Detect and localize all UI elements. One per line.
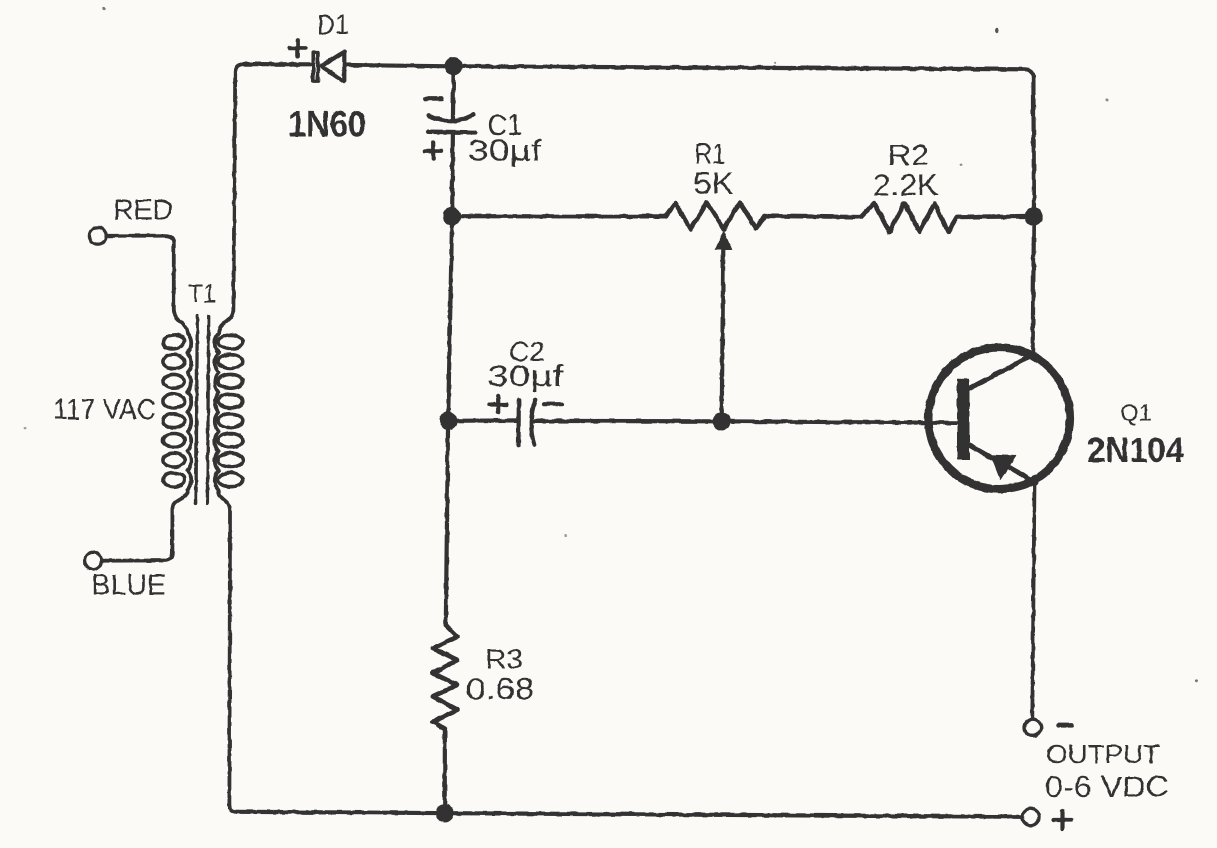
- R1 wiper arrow head: [716, 232, 732, 250]
- plus sign of C1: [425, 143, 442, 160]
- wire R3 bottom lead to bottom rail: [443, 729, 447, 814]
- diode D1 triangle: [321, 52, 344, 82]
- capacitor C2 straight positive plate: [516, 400, 520, 445]
- wire R1 wiper stem down to C2 wire: [722, 247, 724, 421]
- wire C2 left lead from node: [448, 418, 518, 423]
- svg-text:OUTPUT: OUTPUT: [1046, 739, 1160, 769]
- transistor Q1 emitter diagonal lead: [969, 445, 1037, 483]
- RED terminal circle: [89, 227, 106, 244]
- wire C1 top lead: [451, 66, 456, 121]
- svg-text:30µf: 30µf: [487, 360, 565, 393]
- wire top rail left segment from transformer corner to diode D1 anode bar: [244, 62, 313, 66]
- capacitor C2 curved negative plate: [531, 400, 535, 445]
- minus sign at output: [1059, 723, 1073, 728]
- output minus terminal circle: [1025, 719, 1042, 736]
- svg-text:Q1: Q1: [1120, 400, 1152, 427]
- node junction dot R2 right / collector rail: [1025, 207, 1043, 225]
- wire right rail from top corner down to transistor collector: [1033, 78, 1034, 355]
- transistor Q1 base bar: [957, 379, 970, 460]
- node junction dot at top of C1: [444, 57, 462, 75]
- potentiometer R1 zigzag body: [666, 203, 765, 230]
- svg-text:0-6 VDC: 0-6 VDC: [1045, 771, 1169, 803]
- capacitor C1 straight positive plate: [428, 130, 475, 135]
- plus sign at output: [1054, 811, 1072, 829]
- wire bottom rail: [237, 812, 1022, 817]
- minus sign of C1: [425, 97, 442, 101]
- capacitor C1 curved negative plate: [429, 114, 474, 121]
- node junction dot C1 bottom / R1 wire: [443, 207, 461, 225]
- svg-text:R1: R1: [695, 138, 726, 170]
- svg-text:30µf: 30µf: [468, 135, 543, 168]
- svg-text:1N60: 1N60: [288, 104, 366, 145]
- plus sign of C2: [489, 396, 507, 413]
- node junction dot wiper stem / base wire: [713, 412, 731, 430]
- transformer T1 core line right: [207, 316, 208, 504]
- minus sign of C2: [544, 402, 562, 406]
- output plus terminal circle: [1022, 809, 1039, 826]
- svg-text:5K: 5K: [693, 167, 734, 201]
- resistor R3 zigzag body: [433, 625, 458, 729]
- svg-text:2N104: 2N104: [1087, 431, 1184, 470]
- svg-text:RED: RED: [113, 195, 173, 227]
- transformer T1 core line left: [196, 316, 197, 504]
- transistor Q1 emitter arrow head: [991, 455, 1016, 479]
- wire from C1 node to R1 left end: [452, 214, 666, 218]
- wire top rail from diode to top-right corner: [344, 65, 1033, 78]
- svg-text:BLUE: BLUE: [92, 569, 167, 601]
- transformer T1 secondary loop turns: [218, 335, 243, 487]
- svg-text:2.2K: 2.2K: [873, 168, 939, 202]
- wire left middle rail from C1 node down through C2 node to R3: [446, 216, 452, 625]
- svg-text:T1: T1: [188, 281, 216, 309]
- wire from R2 to collector rail: [957, 214, 1034, 219]
- svg-text:D1: D1: [317, 9, 349, 40]
- wire C1 bottom lead down to R1 node: [450, 132, 455, 216]
- BLUE terminal circle: [85, 552, 102, 569]
- wire emitter down to output minus terminal: [1032, 481, 1034, 720]
- transformer T1 secondary winding lead and scallop spine (right): [215, 64, 244, 812]
- wire C2 right lead to transistor base: [531, 421, 957, 423]
- resistor R2 zigzag body: [861, 203, 957, 232]
- node junction dot at C2 left / R3 top: [439, 412, 457, 430]
- transistor Q1 collector diagonal lead: [969, 355, 1033, 389]
- svg-text:117 VAC: 117 VAC: [53, 394, 156, 426]
- diode D1 cathode bar: [313, 52, 318, 81]
- svg-text:R3: R3: [485, 644, 523, 675]
- svg-text:0.68: 0.68: [466, 673, 535, 706]
- scan speckle marks: [24, 7, 1198, 682]
- wire between R1 and R2: [765, 216, 861, 217]
- plus sign at diode anode: [290, 40, 306, 56]
- transformer T1 primary loop turns: [162, 333, 186, 486]
- svg-text:R2: R2: [888, 140, 930, 172]
- transistor Q1 circle: [928, 348, 1070, 490]
- transformer T1 primary winding lead and scallop spine (left): [101, 236, 191, 561]
- node junction dot R3 / bottom rail: [436, 804, 454, 822]
